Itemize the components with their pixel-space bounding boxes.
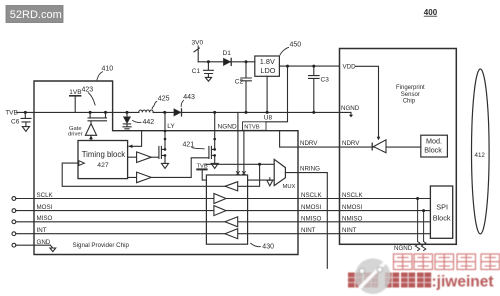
svg-text:430: 430 <box>262 244 274 251</box>
svg-text:D1: D1 <box>223 50 232 57</box>
svg-text:410: 410 <box>102 66 114 73</box>
svg-text:3V0: 3V0 <box>192 39 204 46</box>
svg-text:Timing block: Timing block <box>82 150 126 159</box>
svg-text:Mod.: Mod. <box>426 137 442 146</box>
svg-text:NMOSI: NMOSI <box>342 204 363 211</box>
svg-text:Sensor: Sensor <box>401 92 420 98</box>
svg-text:442: 442 <box>143 119 155 126</box>
svg-text:GND: GND <box>37 239 51 246</box>
svg-text:Block: Block <box>424 146 442 155</box>
svg-text:Chip: Chip <box>403 99 416 105</box>
svg-text:C6: C6 <box>11 118 20 125</box>
svg-text:NSCLK: NSCLK <box>301 192 323 199</box>
svg-text:NMISO: NMISO <box>301 215 321 222</box>
svg-text:423: 423 <box>82 87 94 94</box>
svg-text:C1: C1 <box>192 68 201 75</box>
svg-text:443: 443 <box>183 94 195 101</box>
svg-text:TVB: TVB <box>197 163 208 169</box>
svg-text:427: 427 <box>97 162 109 169</box>
svg-text:LY: LY <box>167 123 175 130</box>
svg-text:Fingerprint: Fingerprint <box>396 85 425 91</box>
svg-text:412: 412 <box>475 152 486 159</box>
svg-text:C2: C2 <box>235 78 244 85</box>
svg-text:421: 421 <box>183 142 195 149</box>
svg-text:NMOSI: NMOSI <box>301 204 322 211</box>
svg-text:INT: INT <box>37 227 47 234</box>
svg-text:NGND: NGND <box>341 105 360 112</box>
svg-text:NSCLK: NSCLK <box>342 192 364 199</box>
svg-text:SPI: SPI <box>436 203 448 212</box>
svg-text:NINT: NINT <box>301 227 316 234</box>
svg-text::jiweinet: :jiweinet <box>432 274 494 291</box>
svg-text:400: 400 <box>424 8 438 17</box>
svg-text:425: 425 <box>158 96 170 103</box>
svg-text:NGND: NGND <box>394 245 413 252</box>
svg-text:1.8V: 1.8V <box>260 57 275 66</box>
svg-text:NMISO: NMISO <box>342 215 362 222</box>
svg-text:VDD: VDD <box>343 64 357 71</box>
svg-text:Signal Provider Chip: Signal Provider Chip <box>73 242 130 249</box>
svg-text:NRING: NRING <box>300 165 320 172</box>
svg-text:LDO: LDO <box>260 66 275 75</box>
svg-text:driver: driver <box>68 131 83 137</box>
svg-text:TVB: TVB <box>5 110 18 117</box>
svg-text:Block: Block <box>433 214 451 223</box>
svg-text:C3: C3 <box>321 77 330 84</box>
svg-text:NINT: NINT <box>342 227 357 234</box>
svg-text:U8: U8 <box>264 115 273 122</box>
svg-text:NTVB: NTVB <box>244 124 260 130</box>
svg-text:NGND: NGND <box>218 124 237 131</box>
svg-text:52RD.com: 52RD.com <box>10 9 62 21</box>
svg-text:1VB: 1VB <box>69 89 81 96</box>
svg-text:MISO: MISO <box>37 215 53 222</box>
svg-text:MOSI: MOSI <box>37 204 53 211</box>
svg-text:NDRV: NDRV <box>342 140 360 147</box>
svg-text:SCLK: SCLK <box>37 192 54 199</box>
svg-text:NDRV: NDRV <box>300 140 318 147</box>
svg-text:MUX: MUX <box>283 184 296 190</box>
svg-text:450: 450 <box>290 42 302 49</box>
